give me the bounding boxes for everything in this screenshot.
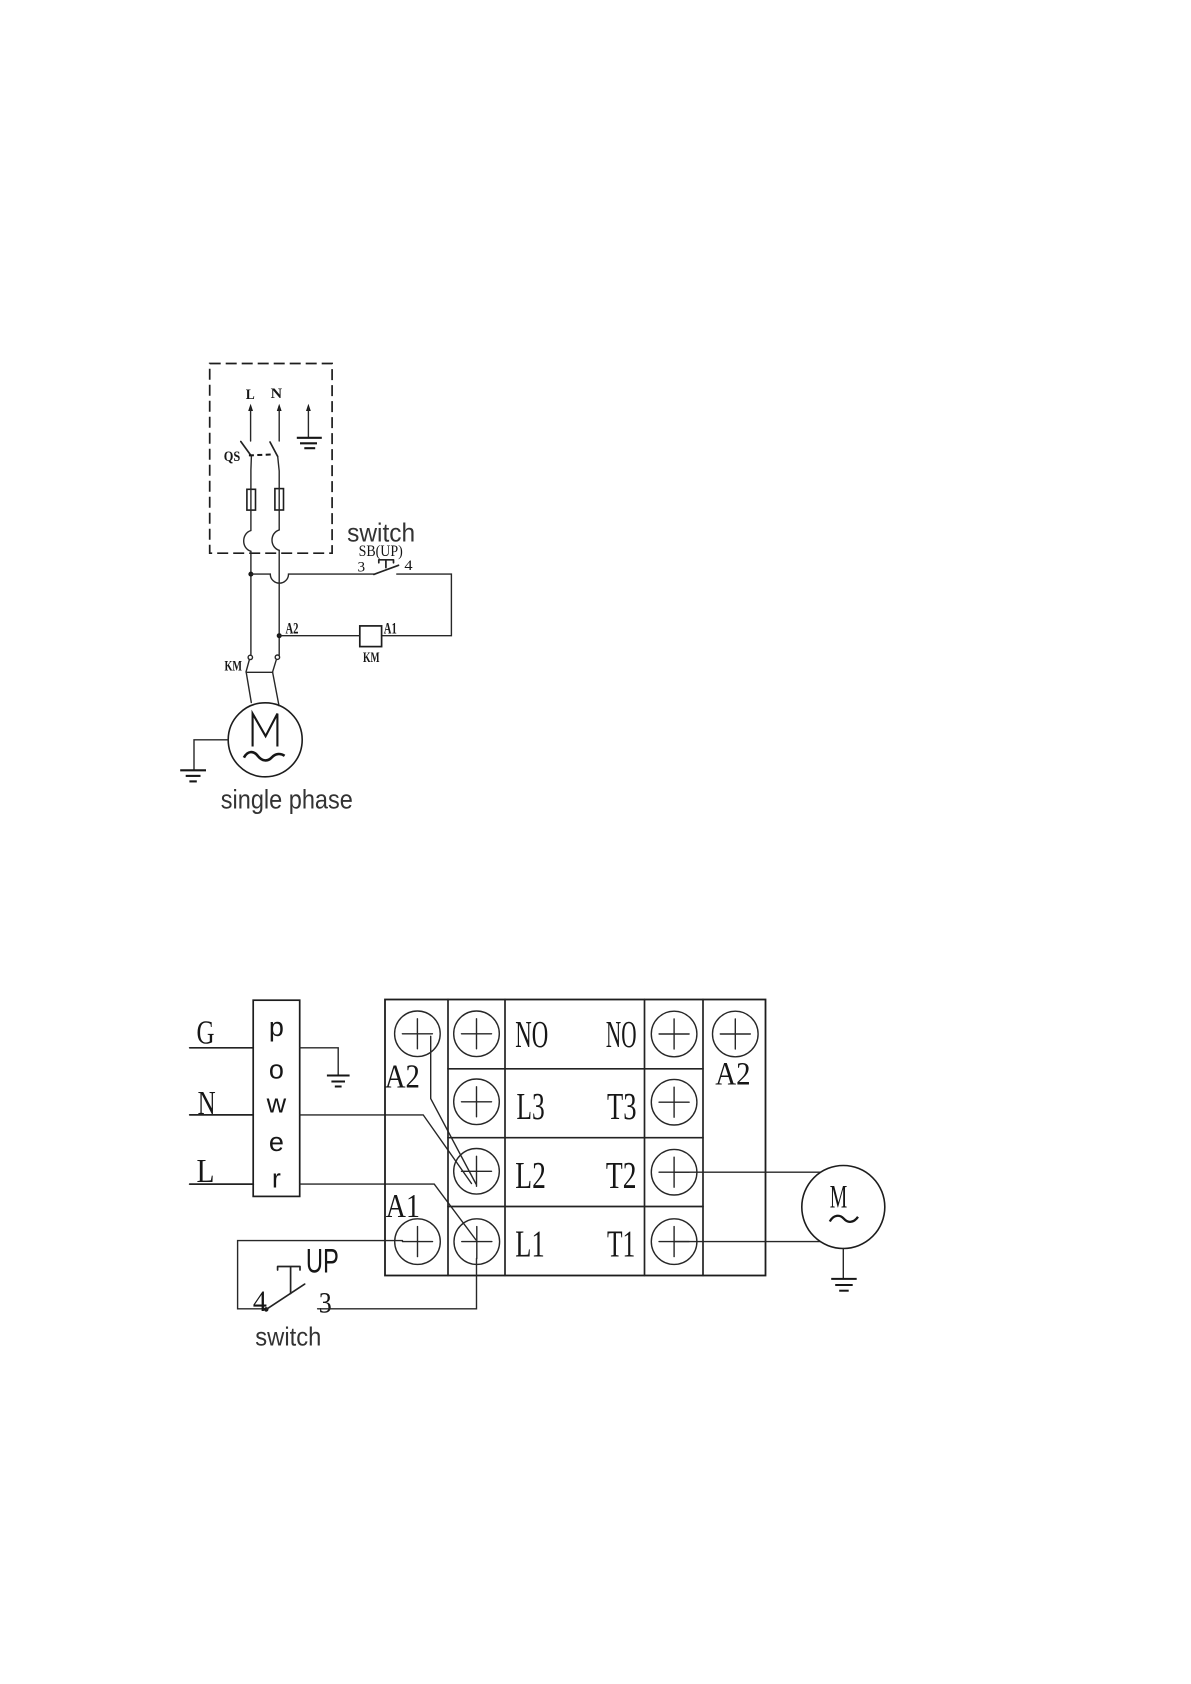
svg-text:o: o [269,1054,284,1084]
switch QS pole N blade [270,442,278,457]
svg-text:e: e [269,1127,284,1157]
connector loop L [244,531,251,552]
svg-text:A1: A1 [386,1188,420,1225]
wire PE drop [307,408,309,438]
svg-text:L: L [246,387,255,403]
terminal T2 col4 [651,1149,697,1195]
motor M2 circle [802,1166,885,1249]
svg-text:UP: UP [306,1242,339,1280]
node L entry arrow [248,404,253,411]
svg-text:A1: A1 [384,621,397,638]
wire N to L2 terminal [300,1115,472,1184]
wire motor M2 to ground [842,1249,844,1279]
terminal L1 col2 [454,1219,500,1265]
coil KM box [360,626,382,647]
terminal L3 col2 [454,1079,500,1125]
connector loop N [272,530,279,550]
svg-text:p: p [269,1012,284,1042]
column divider 3 [644,1000,646,1276]
svg-text:4: 4 [404,558,413,574]
contact KM linkage bar [246,671,272,673]
wire N QS to fuse [278,457,280,489]
switch UP actuator [278,1267,300,1294]
node switch pivot [264,1307,269,1312]
svg-text:T2: T2 [606,1155,637,1197]
svg-text:A2: A2 [385,1059,420,1096]
ground (motor frame) [180,770,206,781]
distribution board dashed enclosure [210,364,332,554]
wire N contact to motor [273,672,279,706]
wire control branch with hop over N [251,574,374,583]
svg-text:3: 3 [319,1286,332,1319]
terminal T1 col4 [651,1219,697,1265]
node N entry arrow [277,404,282,411]
contactor terminal block outline [385,1000,766,1276]
contact KM pole L [248,655,252,659]
svg-text:4: 4 [253,1285,267,1318]
power box letters [266,1012,287,1193]
ground PE (in enclosure) [297,438,322,448]
wire L to L1 terminal [300,1184,476,1240]
svg-text:NO: NO [606,1014,637,1056]
ground (motor M2) [831,1279,857,1291]
svg-text:G: G [197,1014,215,1051]
svg-text:T3: T3 [607,1086,637,1128]
wire L down to KM contact [250,551,252,655]
svg-text:N: N [271,386,283,402]
terminal A1 left [395,1219,441,1265]
svg-text:single phase: single phase [221,784,353,814]
motor M1 ac tilde [244,752,285,760]
wire L QS to fuse [250,456,253,489]
svg-text:L1: L1 [515,1224,544,1266]
wire L entry [250,408,252,441]
column divider 1 [447,1000,449,1276]
wire coil A2 to N junction [279,635,360,637]
column divider 2 [504,1000,506,1276]
power source box [253,1000,300,1196]
svg-text:switch: switch [255,1321,321,1351]
svg-text:A2: A2 [286,621,299,638]
row divider 1 [448,1068,703,1070]
wire G lead [190,1047,254,1049]
pushbutton SB blade [374,565,399,574]
svg-text:N: N [198,1085,216,1122]
wire T2 to motor [674,1171,819,1173]
terminal NO col2 [454,1011,500,1057]
terminal L2 col2 [454,1149,500,1195]
wire L contact to motor [246,672,251,702]
svg-text:SB(UP): SB(UP) [359,543,403,560]
wire control right loop [382,574,452,636]
row divider 2 [448,1137,703,1139]
terminal T3 col4 [651,1079,697,1125]
wire T1 to motor [674,1241,819,1243]
motor M1 circle [228,703,302,777]
svg-text:QS: QS [224,449,241,465]
terminal A2 left [395,1011,441,1057]
wire motor to ground [194,740,228,771]
switch QS pole L blade [241,442,252,457]
wire N lead [190,1114,254,1116]
wire L lead [190,1183,254,1185]
terminal NO col4 [651,1011,697,1057]
node PE entry arrow [306,404,311,411]
fuse FU1 (L) [247,489,256,510]
pushbutton SB actuator [379,560,394,568]
wire A1 to switch [238,1241,403,1309]
svg-text:KM: KM [363,650,380,666]
ground (power G) [327,1076,350,1087]
svg-text:w: w [266,1089,287,1119]
wire N entry [278,408,280,441]
switch UP blade [266,1284,305,1309]
svg-text:r: r [272,1163,281,1193]
node junction N / coil A2 [277,633,282,638]
svg-text:M: M [830,1180,848,1216]
motor M2 ac tilde [830,1216,858,1222]
column divider 4 [702,1000,704,1276]
svg-text:NO: NO [515,1014,548,1056]
terminal NO col5 [713,1011,759,1057]
fuse FU2 (N) [275,489,284,510]
node junction L / control tap [248,572,253,577]
svg-text:T1: T1 [607,1224,635,1266]
wire N down to KM contact [278,550,280,655]
svg-text:KM: KM [225,659,243,675]
wire switch to L1 terminal [318,1259,477,1309]
svg-text:L2: L2 [515,1155,546,1197]
switch QS linkage (dashed) [249,454,273,455]
row divider 3 [448,1206,703,1208]
contact KM pole N [275,655,279,659]
wire G to ground [300,1048,339,1076]
motor M1 letter [253,714,278,747]
svg-text:A2: A2 [715,1057,750,1093]
svg-text:L3: L3 [517,1086,545,1128]
svg-text:3: 3 [358,559,366,575]
wire A2 terminal to L2 terminal [431,1036,476,1184]
